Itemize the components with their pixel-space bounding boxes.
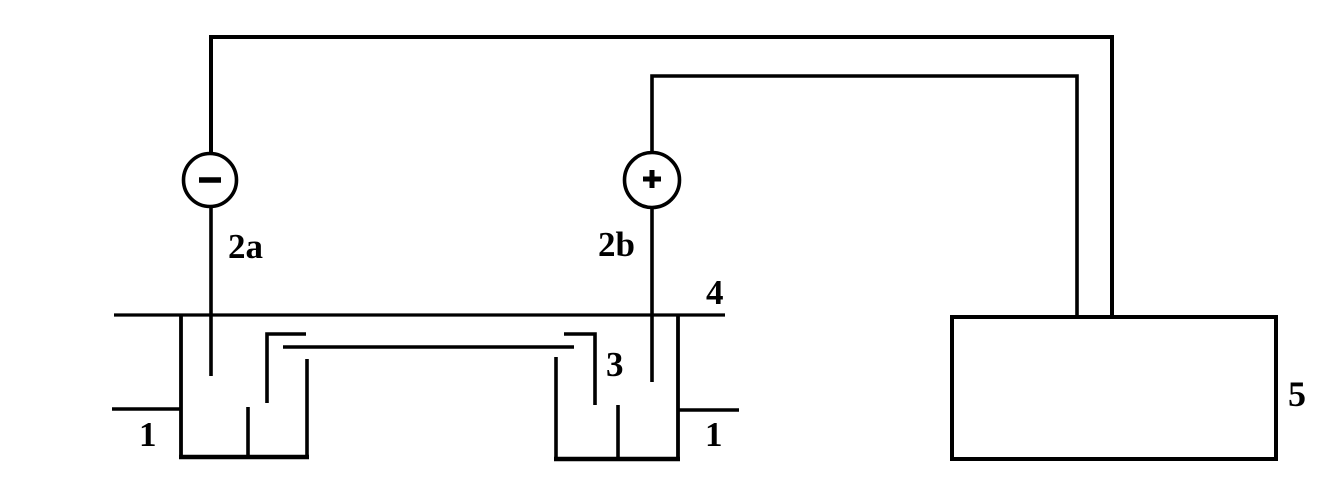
svg-text:1: 1: [139, 415, 157, 454]
svg-text:2b: 2b: [598, 225, 635, 264]
svg-text:1: 1: [705, 415, 723, 454]
svg-text:3: 3: [606, 345, 624, 384]
svg-text:2a: 2a: [228, 227, 263, 266]
svg-text:5: 5: [1288, 374, 1306, 414]
svg-text:4: 4: [706, 273, 724, 312]
